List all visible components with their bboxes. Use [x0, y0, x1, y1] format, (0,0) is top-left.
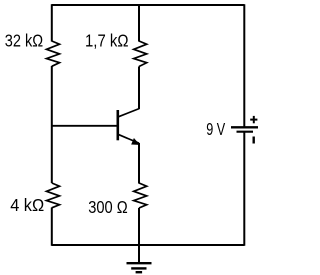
ground bar 3	[136, 271, 143, 273]
wire emitter vertical	[138, 143, 140, 184]
battery plus sign	[250, 116, 257, 123]
wire left rail upper	[51, 4, 53, 41]
battery V1 positive plate	[231, 126, 258, 128]
svg-text:9 V: 9 V	[206, 119, 225, 139]
wire bottom rail	[52, 244, 245, 246]
wire right rail lower	[243, 132, 245, 246]
battery V1 negative plate	[237, 131, 254, 133]
wire middle branch top	[138, 4, 140, 41]
svg-text:4 kΩ: 4 kΩ	[10, 195, 44, 215]
wire middle branch bottom	[138, 208, 140, 245]
wire left rail middle	[51, 66, 53, 183]
resistor R2 4 kOhm	[47, 183, 60, 208]
svg-text:300 Ω: 300 Ω	[88, 197, 128, 217]
ground stub wire	[138, 245, 140, 262]
transistor Q1 emitter arrow	[132, 139, 140, 145]
svg-text:1,7 kΩ: 1,7 kΩ	[85, 30, 129, 50]
resistor R3 1,7 kOhm	[134, 41, 147, 67]
resistor R4 300 Ohm	[134, 183, 147, 208]
battery minus tick	[252, 137, 254, 144]
resistor R1 32 kOhm	[47, 41, 60, 66]
transistor Q1 emitter lead	[118, 134, 139, 143]
wire right rail upper	[243, 4, 245, 127]
wire collector vertical	[138, 67, 140, 110]
wire top rail	[52, 4, 245, 6]
wire base	[51, 125, 117, 127]
svg-text:32 kΩ: 32 kΩ	[5, 30, 43, 50]
ground bar 1	[127, 262, 152, 264]
transistor Q1 collector lead	[118, 109, 139, 117]
wire left rail lower	[51, 208, 53, 246]
transistor Q1 base bar	[117, 110, 120, 140]
ground bar 2	[131, 267, 146, 269]
